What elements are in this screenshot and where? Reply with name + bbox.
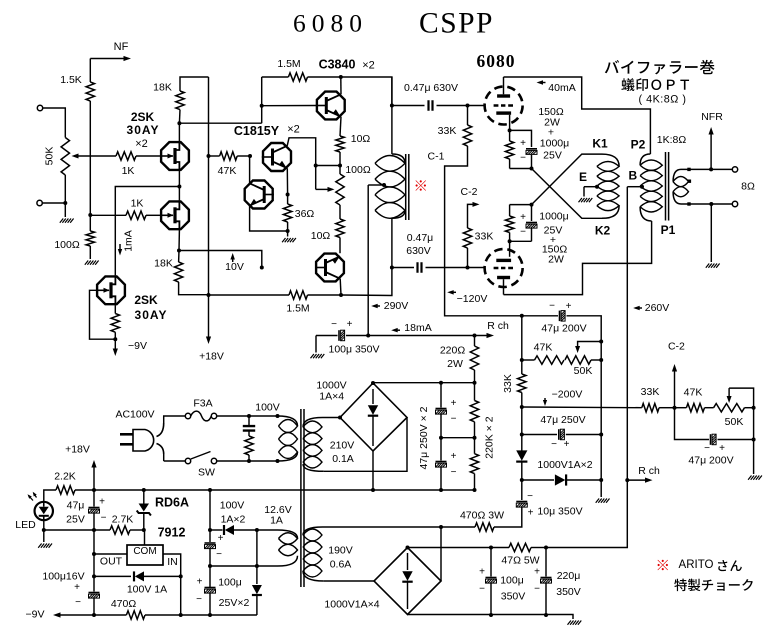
- svg-text:50K: 50K: [574, 365, 593, 377]
- transistor C1815Y #2: [245, 181, 274, 209]
- svg-text:100μ: 100μ: [500, 575, 524, 587]
- capacitor 47u 25V: [89, 497, 107, 524]
- wire plug bottom: [163, 454, 165, 461]
- svg-text:1A×2: 1A×2: [221, 514, 246, 526]
- wire bridge1 minus: [372, 451, 374, 490]
- label C-1: [428, 151, 445, 163]
- wire tap: [368, 184, 384, 186]
- node choke tap bottom: [366, 334, 370, 338]
- svg-text:25V×2: 25V×2: [219, 597, 250, 609]
- red note mark #1: [416, 180, 426, 190]
- node minus a: [92, 488, 96, 492]
- node Q1 base: [248, 154, 252, 158]
- wire C3840 base branch: [261, 77, 263, 123]
- svg-text:LED: LED: [15, 519, 36, 531]
- node corner drive: [260, 266, 264, 270]
- svg-text:290V: 290V: [384, 300, 409, 312]
- wire OUT side: [94, 553, 127, 555]
- wire LED to rail: [44, 529, 110, 531]
- wire rail c: [93, 530, 95, 554]
- svg-text:1.5M: 1.5M: [286, 303, 309, 315]
- wire 47K2 left: [675, 407, 687, 409]
- wire 1K2 to FET1b: [146, 214, 160, 216]
- resistor 470ohm: [111, 598, 145, 619]
- wire V2 plate: [503, 279, 505, 294]
- svg-text:0.47μ: 0.47μ: [407, 232, 434, 244]
- svg-text:−: −: [216, 549, 222, 560]
- regulator 7912 COM box: [127, 545, 163, 565]
- label C3840 x2: [319, 58, 375, 72]
- node V2 cathode: [508, 239, 512, 243]
- svg-text:+: +: [451, 451, 457, 462]
- choke vertical top: [391, 77, 393, 154]
- wire cap gnd stub: [315, 336, 317, 353]
- node snubber top: [247, 414, 251, 418]
- label 10u 350V: [537, 506, 582, 518]
- wire snub bottom: [248, 455, 250, 461]
- label AC100V: [115, 409, 154, 421]
- wire rc V2 b: [509, 205, 511, 216]
- label 210V: [330, 440, 355, 466]
- svg-text:33K: 33K: [502, 374, 514, 393]
- capacitor 1000u V1: [520, 138, 537, 164]
- resistor 1K gate2: [126, 198, 146, 220]
- wire capcol b: [440, 415, 442, 438]
- node Q1 coll branch: [314, 164, 318, 168]
- svg-text:0.6A: 0.6A: [330, 559, 352, 571]
- wire FET1b source: [178, 230, 180, 250]
- svg-text:0.47μ 630V: 0.47μ 630V: [404, 82, 458, 94]
- fuse F3A: [185, 411, 216, 421]
- svg-text:×2: ×2: [135, 138, 148, 150]
- wire psu gnd rail: [408, 615, 574, 620]
- wire tube2 drive: [179, 251, 262, 268]
- node C-2 out: [673, 406, 677, 410]
- svg-text:6080: 6080: [477, 51, 516, 71]
- wire secondary bottom: [681, 203, 732, 205]
- svg-text:30AY: 30AY: [135, 308, 168, 322]
- wire 470ohm to 190V: [323, 526, 476, 528]
- svg-text:260V: 260V: [645, 302, 670, 314]
- +18V arrow up: [91, 460, 96, 490]
- 260V arrow: [633, 306, 642, 310]
- svg-text:50K: 50K: [725, 416, 744, 428]
- diode 1000V 1A #1: [516, 450, 527, 461]
- svg-text:ARITO: ARITO: [679, 559, 714, 571]
- node prot left: [92, 574, 96, 578]
- transistor C3840 #2: [315, 254, 344, 282]
- node FET3 feedback: [113, 337, 117, 341]
- svg-text:47K: 47K: [684, 387, 703, 399]
- -9V arrow: [113, 339, 118, 356]
- label 290V: [384, 300, 409, 312]
- bridge rectifier #1: [340, 383, 407, 451]
- capacitor 47u 250V a: [436, 398, 457, 425]
- wire 220K b1: [474, 438, 476, 454]
- label bifilar winding: [605, 60, 715, 75]
- node C3840#2 collector: [339, 293, 343, 297]
- label special choke: [674, 579, 753, 591]
- wire terminal to pot bottom: [42, 202, 65, 204]
- resistor 18K upper: [153, 82, 184, 110]
- wire 47K right: [237, 155, 250, 157]
- wire V2 cathode: [509, 241, 511, 256]
- wire heater top b: [234, 529, 278, 531]
- wire to choke top: [341, 77, 392, 106]
- wire -9v rail b: [94, 614, 126, 616]
- wiper arrow 50K bias2: [727, 388, 754, 408]
- cathode winding K1/K2: [597, 154, 619, 218]
- node 36ohm gnd: [286, 229, 290, 233]
- resistor 36ohm: [283, 204, 314, 222]
- node R ch bottom: [625, 478, 629, 482]
- primary winding P1/P2: [640, 154, 662, 221]
- capacitor 10u 350V: [516, 491, 533, 519]
- wire 10u bottom corner: [494, 508, 522, 528]
- wire heater mid rail: [210, 565, 278, 567]
- label C-2 #2: [668, 341, 685, 353]
- wire cap right to bias rail: [567, 316, 602, 497]
- label K2: [595, 224, 611, 238]
- node filter cap top: [439, 381, 443, 385]
- wire 210V top: [323, 417, 341, 419]
- svg-text:B: B: [628, 169, 637, 183]
- wire pot bottom: [64, 175, 66, 203]
- capacitor 47u 250V series: [551, 429, 570, 450]
- resistor 47K bias2: [684, 387, 705, 412]
- label B: [628, 169, 637, 183]
- capacitor 47u 250V b: [436, 451, 457, 478]
- label 100u 350V: [328, 344, 379, 356]
- label 40mA: [548, 82, 575, 94]
- node gnd rail b: [544, 613, 548, 617]
- potentiometer VR1 50K: [44, 138, 70, 176]
- PT 12.6V winding: [278, 530, 298, 566]
- ground psu: [568, 621, 582, 625]
- wire E gnd stub: [583, 187, 585, 197]
- label RD6A: [155, 496, 189, 510]
- resistor 220K b: [470, 454, 478, 474]
- svg-text:2W: 2W: [548, 254, 564, 266]
- bridge rectifier #2: [374, 548, 441, 615]
- resistor 33K C-1: [438, 125, 472, 146]
- svg-text:100Ω: 100Ω: [54, 239, 80, 251]
- label ari-jirushi OPT: [621, 78, 689, 91]
- ground 36ohm: [282, 238, 296, 242]
- wire bridge2 right up: [440, 527, 442, 581]
- node heater a: [208, 528, 212, 532]
- label R ch top: [487, 320, 509, 332]
- svg-text:+: +: [99, 497, 105, 508]
- +18V arrow down: [206, 337, 211, 345]
- wire C-1 line: [445, 146, 558, 316]
- capacitor 100u 350V psu: [479, 567, 496, 595]
- svg-text:33K: 33K: [438, 125, 457, 137]
- wire heater top a: [210, 529, 223, 531]
- svg-text:+18V: +18V: [199, 351, 224, 363]
- transistor C1815Y #1: [262, 143, 291, 171]
- capacitor 47u200V series: [541, 301, 586, 335]
- svg-text:+: +: [218, 533, 224, 544]
- wire rail e: [93, 576, 95, 591]
- node cap 220u top: [544, 546, 548, 550]
- wire 18K top corner: [180, 77, 209, 91]
- svg-text:F3A: F3A: [193, 398, 212, 410]
- wire tap down: [367, 185, 369, 336]
- PT 210V winding: [303, 418, 324, 472]
- wire res to node: [114, 332, 116, 339]
- svg-text:+: +: [528, 508, 534, 519]
- label SW: [198, 467, 215, 479]
- svg-text:1000μ: 1000μ: [539, 211, 568, 223]
- svg-text:×2: ×2: [287, 124, 300, 136]
- resistor 10ohm #2: [311, 219, 344, 242]
- wire heater diode2 col b: [256, 596, 258, 615]
- svg-text:18K: 18K: [154, 258, 173, 270]
- resistor 47ohm 5W: [501, 543, 539, 566]
- svg-text:210V: 210V: [330, 440, 355, 452]
- svg-text:+: +: [564, 439, 570, 450]
- wire 100ohm to gnd: [89, 246, 91, 259]
- node 47K left: [520, 358, 524, 362]
- wire B+ first: [408, 547, 510, 549]
- C-2 arrow #2: [672, 364, 677, 408]
- node minus c: [208, 488, 212, 492]
- svg-text:1.5M: 1.5M: [277, 58, 300, 70]
- phase dot sec top: [687, 168, 690, 171]
- C-2 arrow: [468, 202, 480, 228]
- svg-text:0.1A: 0.1A: [332, 453, 354, 465]
- wire 33K2 bottom: [467, 248, 469, 268]
- wire 190V bottom: [324, 580, 374, 582]
- ground input: [60, 219, 74, 223]
- wire rc V2 a: [509, 233, 511, 242]
- label 18mA: [404, 322, 431, 334]
- svg-text:2SK: 2SK: [134, 293, 158, 307]
- OPT core: [666, 152, 669, 221]
- svg-text:1A: 1A: [270, 515, 283, 527]
- label -200V: [552, 389, 583, 401]
- resistor 1.5K: [60, 74, 94, 101]
- resistor 33K bias h: [641, 386, 660, 412]
- PT core: [301, 409, 304, 587]
- svg-text:−120V: −120V: [457, 293, 488, 305]
- svg-text:1.5K: 1.5K: [60, 74, 82, 86]
- diode heater: [224, 525, 234, 535]
- wire 1.5M right: [308, 76, 341, 78]
- wire rail 18v b: [93, 514, 95, 531]
- resistor 2.7K: [110, 514, 133, 535]
- wire rc box V2 top: [510, 204, 532, 206]
- node Q2 base: [286, 193, 290, 197]
- svg-text:10μ 350V: 10μ 350V: [537, 506, 582, 518]
- svg-text:1mA: 1mA: [123, 230, 135, 252]
- tube V2 6080 lower: [485, 249, 523, 287]
- tube V1 6080 upper: [485, 87, 523, 125]
- wire V1 to K2 diagonal: [532, 169, 603, 219]
- svg-text:100V: 100V: [220, 500, 245, 512]
- svg-text:−9V: −9V: [128, 340, 147, 352]
- svg-text:100V 1A: 100V 1A: [127, 584, 167, 596]
- resistor 150ohm V2: [505, 216, 513, 233]
- node tube2 drive: [177, 249, 181, 253]
- capacitor 220u 350V: [534, 567, 551, 595]
- svg-text:−: −: [549, 301, 555, 312]
- switch SW: [185, 452, 216, 464]
- svg-text:R ch: R ch: [638, 465, 660, 477]
- node prot right: [179, 574, 183, 578]
- wire cap to tap node: [346, 335, 368, 337]
- wiper arrow 50K bias1: [575, 342, 601, 354]
- svg-text:NFR: NFR: [701, 111, 723, 123]
- wire pot1 right: [591, 359, 601, 361]
- svg-text:−: −: [101, 513, 107, 524]
- wire LED top corner: [44, 490, 56, 502]
- wire 47K left: [209, 155, 220, 157]
- svg-text:C-2: C-2: [461, 186, 478, 198]
- svg-text:+: +: [347, 319, 353, 330]
- wire c220 a: [545, 548, 547, 577]
- label P2: [631, 138, 646, 152]
- label V1 cathode parts: [538, 106, 569, 162]
- wire B+ rail: [546, 187, 627, 548]
- wire -9v rail c: [145, 614, 257, 616]
- wire input top to pot: [43, 108, 66, 138]
- wire capcol c: [440, 438, 442, 461]
- label 1000V 1Ax4: [316, 380, 346, 403]
- svg-text:+: +: [451, 398, 457, 409]
- svg-text:COM: COM: [133, 546, 156, 557]
- NF arrow: [90, 56, 131, 61]
- wire 220K a1: [474, 383, 476, 401]
- wire NF vertical: [89, 59, 91, 83]
- phase dot sec bottom: [687, 202, 690, 205]
- svg-text:AC100V: AC100V: [115, 409, 154, 421]
- wire 47u250 left: [522, 434, 557, 436]
- svg-text:6080: 6080: [293, 9, 368, 38]
- label E: [579, 170, 587, 184]
- resistor 470ohm 3W: [460, 510, 504, 532]
- wire 210V bottom: [324, 418, 407, 472]
- svg-text:C-2: C-2: [668, 341, 685, 353]
- -120V arrow: [447, 290, 456, 295]
- wire heater cap col b: [209, 549, 211, 587]
- 10V arrow: [230, 253, 235, 262]
- node sec gnd: [709, 202, 713, 206]
- wire Q2 left chain: [250, 156, 288, 231]
- wire cap2 to gnd branch: [718, 439, 754, 441]
- wire 2.7K right: [130, 529, 144, 531]
- node bridge1 plus: [371, 381, 375, 385]
- 1mA arrow: [118, 244, 122, 256]
- svg-text:1K: 1K: [131, 198, 144, 210]
- wire B tap: [627, 186, 642, 188]
- svg-text:10Ω: 10Ω: [351, 133, 371, 145]
- wire pot2 left: [705, 407, 714, 409]
- wire 18K2 bottom corner: [179, 282, 209, 295]
- wire pot2 right: [745, 407, 754, 409]
- svg-text:100μ16V: 100μ16V: [42, 571, 84, 583]
- wire V1 plate up: [503, 77, 505, 94]
- wire mid join: [441, 437, 475, 439]
- wire C2 cap branch: [675, 408, 710, 440]
- svg-text:−: −: [451, 467, 457, 478]
- wire 220ohm bottom: [474, 370, 476, 383]
- wire capcol d: [440, 468, 442, 491]
- resistor 47K bias upper: [534, 342, 564, 365]
- node 220ohm top: [473, 334, 477, 338]
- wire capcol a: [440, 383, 442, 408]
- wire 33K to C2 node: [659, 407, 674, 409]
- svg-text:47K: 47K: [534, 342, 553, 354]
- node choke bottom: [390, 266, 394, 270]
- label 47u25V: [66, 500, 85, 526]
- label 8ohm: [741, 181, 755, 193]
- wire base to C3840#1: [262, 105, 317, 107]
- wire FET1b drain: [178, 187, 180, 201]
- node 18K bottom: [177, 121, 181, 125]
- svg-text:P2: P2: [631, 138, 646, 152]
- choke vertical bottom: [391, 218, 393, 267]
- transistor FET 2SK30A #2: [160, 200, 189, 230]
- svg-text:7912: 7912: [158, 526, 186, 540]
- potentiometer 100ohm: [336, 164, 371, 205]
- node pot2 right top: [752, 406, 756, 410]
- node choke top: [390, 104, 394, 108]
- node gnd rail a: [489, 613, 493, 617]
- svg-text:47μ 250V × 2: 47μ 250V × 2: [418, 406, 430, 469]
- svg-text:K2: K2: [595, 224, 611, 238]
- wire V2 to K1 diagonal: [532, 154, 603, 205]
- wire 220K b2: [474, 474, 476, 490]
- label NFR: [701, 111, 723, 123]
- svg-text:+: +: [719, 443, 725, 454]
- LED D1: [28, 492, 53, 520]
- label F3A: [193, 398, 212, 410]
- PT primary winding: [278, 416, 298, 461]
- node bootstrap: [338, 164, 342, 168]
- wire V1 plate to OPT: [504, 77, 651, 154]
- svg-text:−: −: [551, 439, 557, 450]
- svg-text:−: −: [520, 153, 526, 164]
- node 220K top: [473, 381, 477, 385]
- wire FET3 source: [114, 305, 116, 313]
- wire bias rail upper: [521, 316, 523, 374]
- capacitor 0.47u 630V #2: [406, 232, 433, 273]
- wire C3840#2 collector: [339, 279, 342, 295]
- input terminal top: [37, 105, 42, 110]
- svg-text:IN: IN: [167, 556, 178, 568]
- svg-text:1K: 1K: [122, 165, 135, 177]
- node 47K tap: [207, 154, 211, 158]
- wire prot diode rail b: [144, 575, 181, 577]
- wire Q1 emitter chain: [286, 168, 288, 204]
- -9V arrow: [53, 612, 94, 617]
- 290V arrow: [371, 304, 380, 308]
- label 12.6V: [264, 504, 291, 527]
- snubber resistor: [245, 436, 253, 455]
- wire 1K to FET1a: [136, 155, 160, 157]
- label -9V: [26, 609, 45, 621]
- label C-2 #1: [461, 186, 478, 198]
- svg-text:NF: NF: [114, 41, 129, 53]
- svg-text:220K × 2: 220K × 2: [484, 416, 496, 458]
- svg-text:10Ω: 10Ω: [311, 230, 331, 242]
- resistor 220ohm 2W: [440, 345, 479, 371]
- svg-text:−: −: [196, 594, 202, 605]
- wire gate2 left: [90, 214, 126, 216]
- node minus e: [439, 488, 443, 492]
